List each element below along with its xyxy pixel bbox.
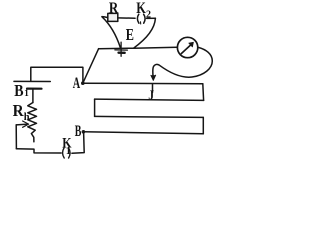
node A (dot) <box>81 81 85 85</box>
svg-text:B: B <box>14 81 23 100</box>
svg-text:1: 1 <box>24 89 29 99</box>
wire right vertical 3 <box>202 117 204 133</box>
wire A up and left to battery B1 <box>31 67 83 83</box>
wire from junction to galvanometer <box>99 47 178 49</box>
wire right vertical 1 <box>202 84 205 101</box>
wire right of K2 <box>147 17 156 19</box>
wire between box and key K2 <box>118 17 135 19</box>
key K1 (plug key gap) <box>63 148 65 158</box>
wire potentiometer row 3 <box>95 116 204 117</box>
svg-text:B: B <box>75 123 82 140</box>
svg-text:E: E <box>126 25 134 44</box>
wire diagonal junction to A <box>83 49 99 83</box>
wire wiper down left side <box>15 125 17 149</box>
galvanometer needle <box>181 43 192 53</box>
wire potentiometer row 2 <box>95 99 204 100</box>
resistor R1 (resistance box R) <box>108 13 118 21</box>
wire top branch left segment <box>102 17 108 18</box>
wire right diagonal of cell branch <box>134 18 156 48</box>
wire left diagonal of cell branch <box>102 17 121 48</box>
node B (dot) <box>82 130 86 134</box>
svg-text:R: R <box>13 101 25 120</box>
wire jockey loop from galvanometer <box>153 47 212 77</box>
wire battery to rheostat <box>32 89 34 103</box>
battery B1 short plate <box>27 87 42 89</box>
battery B1 long plate <box>14 80 50 82</box>
jockey contact tick below wire <box>152 84 154 92</box>
rheostat Rh (zigzag) <box>28 103 37 142</box>
svg-text:A: A <box>73 75 81 92</box>
rheostat wiper arrow <box>16 123 26 126</box>
cell E (battery symbol) <box>120 42 122 56</box>
wire potentiometer row 4 <box>83 132 203 134</box>
svg-text:K: K <box>136 0 146 17</box>
key K2 (plug key gap) <box>137 14 139 23</box>
wire bottom left <box>16 149 61 153</box>
wire potentiometer row 1 <box>83 82 203 85</box>
svg-text:1: 1 <box>66 146 71 157</box>
svg-text:R: R <box>109 0 119 17</box>
jockey arrowhead at J <box>151 75 156 80</box>
wire K1 to B <box>72 132 84 153</box>
wire left vertical 2 <box>94 99 96 116</box>
galvanometer G <box>177 37 197 57</box>
